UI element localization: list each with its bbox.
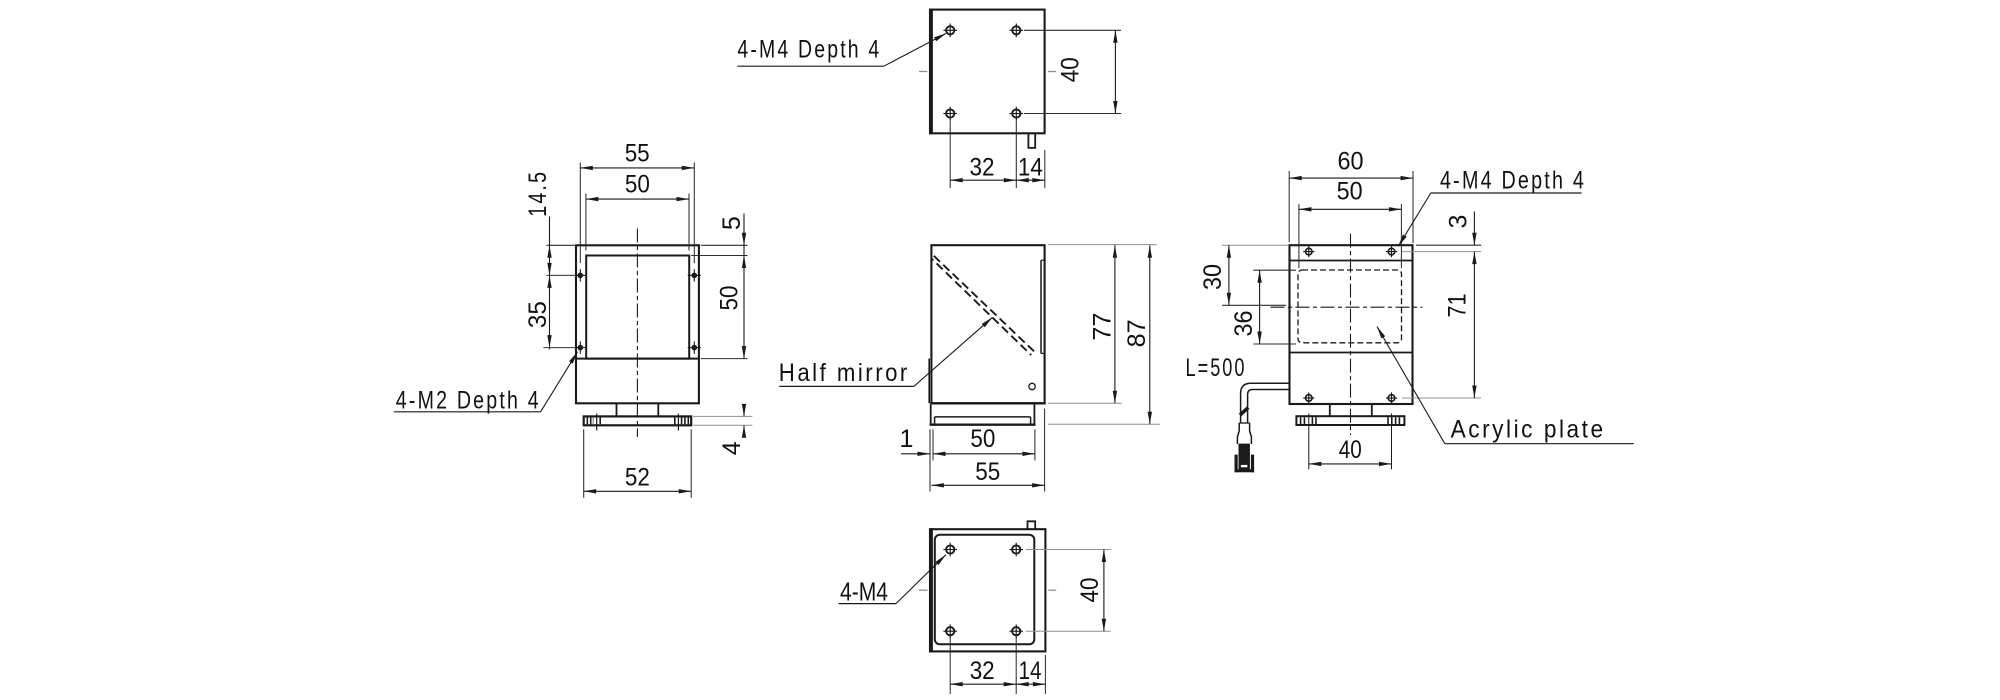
side view: foot bottom line	[930, 424, 1036, 426]
right view: dim 36 extension lines	[1253, 270, 1296, 344]
right view: cable	[1240, 383, 1290, 423]
front view: outer body outline	[576, 245, 699, 403]
side view: acrylic plate edge line	[928, 359, 930, 404]
side view: half mirror dashed line upper	[934, 256, 1035, 352]
right view: top plate line	[1290, 260, 1413, 262]
right view: cable connector	[1235, 423, 1255, 472]
top view: label 4-M4 Depth 4	[737, 33, 946, 66]
bottom view: screw hole top-left	[943, 543, 957, 557]
side view: dim 87 bottom extension line	[1048, 423, 1160, 425]
top view: dim 32/14 extension lines	[950, 120, 1045, 189]
bottom view: dim 32	[950, 657, 1016, 686]
bottom view: dim 40 extension lines	[1026, 550, 1111, 632]
top view: dim 40	[1056, 30, 1117, 113]
front view: M2 hole top-left	[574, 269, 587, 281]
side view: bottom extension lines	[930, 409, 1045, 492]
svg-text:Acrylic plate: Acrylic plate	[1451, 416, 1606, 444]
top view: screw hole bottom-right	[1010, 107, 1024, 121]
front view: right extension lines for 5 and 50	[691, 245, 747, 358]
front view: base separation line	[576, 358, 699, 360]
right view: base separation line	[1290, 352, 1413, 354]
front view: dim 4 extension lines	[693, 416, 752, 425]
right view: bottom screw hole right	[1386, 392, 1397, 403]
svg-text:50: 50	[970, 425, 995, 453]
side view: dim 1	[900, 425, 930, 456]
top view: screw hole bottom-left	[943, 107, 957, 121]
side view: foot sides	[931, 404, 1035, 424]
bottom view: dim 32/14 extension lines	[950, 638, 1045, 695]
front view: dim 55	[580, 140, 694, 171]
front view: foot screw centerline right	[677, 414, 679, 431]
front view: pedestal stem	[617, 403, 659, 416]
side view: dim 50	[933, 425, 1035, 456]
right view: horizontal centerline	[1271, 306, 1423, 308]
side view: dim 77 bottom extension line	[1048, 402, 1122, 404]
side view: dim 77/87 top extension line	[1048, 244, 1157, 246]
svg-text:60: 60	[1338, 147, 1364, 175]
svg-text:4-M4 Depth 4: 4-M4 Depth 4	[1440, 167, 1586, 195]
top view: screw hole top-right	[1010, 24, 1024, 38]
right view: dim 50	[1299, 178, 1402, 212]
side view: foot top line	[935, 416, 1031, 418]
front view: foot flange knurl ticks left	[587, 417, 600, 424]
svg-text:4-M4: 4-M4	[840, 577, 888, 607]
svg-text:40: 40	[1339, 436, 1362, 464]
svg-text:40: 40	[1056, 57, 1084, 82]
bottom view: screw hole bottom-right	[1009, 624, 1023, 638]
svg-text:L=500: L=500	[1186, 354, 1247, 382]
right view: vertical centerline	[1350, 234, 1352, 435]
right view: dim 3	[1444, 212, 1476, 265]
svg-text:50: 50	[1337, 178, 1363, 206]
bottom view: dim 40	[1076, 550, 1106, 632]
svg-text:4-M2 Depth 4: 4-M2 Depth 4	[396, 387, 541, 415]
front view: foot flange knurl ticks right	[675, 417, 689, 424]
side view: dim 55	[931, 458, 1044, 488]
front view: left extension lines for 14.5 and 35	[543, 245, 575, 347]
side view: body outline	[931, 245, 1044, 403]
top view: dim 14	[1016, 154, 1045, 183]
svg-text:32: 32	[970, 657, 995, 685]
top view: centre mark left	[919, 71, 927, 73]
bottom view: inner plate outline	[935, 535, 1035, 645]
side view: label Half mirror	[779, 317, 993, 387]
bottom view: dim 14	[1016, 657, 1045, 686]
right view: dim 60 extension lines	[1289, 171, 1413, 243]
bottom view: outer body outline	[930, 528, 1045, 652]
side view: set screw circle	[1029, 383, 1035, 389]
right view: label Acrylic plate	[1377, 327, 1634, 444]
bottom view: screw hole bottom-left	[943, 624, 957, 638]
front view: dim 55 extension lines	[580, 163, 694, 264]
front view: M2 hole top-right	[688, 269, 701, 281]
right view: body outline	[1290, 245, 1413, 404]
front view: dim 5	[718, 214, 746, 359]
svg-text:50: 50	[625, 171, 650, 199]
right view: dim 30	[1199, 245, 1231, 305]
svg-text:14: 14	[1018, 154, 1043, 182]
front view: foot flange	[584, 416, 692, 425]
side view: dim 87	[1123, 245, 1152, 424]
right view: foot knurl ticks left	[1301, 417, 1316, 424]
svg-text:3: 3	[1444, 215, 1472, 229]
svg-text:30: 30	[1199, 264, 1227, 290]
right view: dim 40 extension lines	[1309, 414, 1392, 470]
front view: dim 50 top	[586, 171, 689, 202]
svg-text:1: 1	[900, 425, 914, 453]
top view: connector tab	[1028, 133, 1035, 148]
front view: inner window frame	[586, 256, 689, 359]
svg-text:36: 36	[1230, 311, 1258, 337]
right view: top screw hole right	[1386, 246, 1397, 257]
svg-text:55: 55	[975, 458, 1000, 486]
side view: bottom edge thick	[930, 402, 1045, 404]
right view: dim 3 extension lines	[1402, 245, 1481, 251]
bottom view: connector tab	[1028, 521, 1036, 529]
top view: dim 40 extension lines	[1024, 30, 1121, 113]
top view: centre mark right	[1048, 71, 1056, 73]
right view: dim 50 extension lines	[1299, 204, 1402, 268]
side view: dim 77	[1088, 245, 1117, 403]
right view: top screw hole left	[1303, 246, 1314, 257]
right view: dim 40	[1309, 436, 1392, 466]
svg-text:14: 14	[1019, 657, 1042, 685]
right view: foot flange	[1296, 416, 1404, 425]
svg-text:Half mirror: Half mirror	[779, 359, 910, 387]
svg-text:4: 4	[718, 441, 746, 455]
front view: dim 50 extension lines	[586, 194, 689, 251]
front view: dim 14.5	[524, 170, 552, 350]
svg-text:87: 87	[1123, 319, 1151, 347]
right view: dim 71 extension line	[1402, 397, 1481, 399]
svg-text:52: 52	[625, 464, 650, 492]
svg-text:35: 35	[524, 301, 552, 328]
svg-text:50: 50	[716, 286, 744, 311]
svg-text:40: 40	[1076, 578, 1104, 603]
right view: dim 60	[1289, 147, 1413, 180]
right view: pedestal stem	[1330, 404, 1372, 416]
right view: bottom screw hole left	[1303, 392, 1314, 403]
front view: foot screw centerline left	[596, 414, 598, 431]
svg-text:32: 32	[970, 154, 995, 182]
bottom view: label 4-M4	[839, 555, 946, 607]
front view: M2 hole bottom-left	[574, 341, 587, 353]
svg-text:14.5: 14.5	[524, 170, 552, 217]
right view: label 4-M4 Depth 4	[1398, 167, 1586, 247]
right view: dim 36	[1230, 270, 1262, 344]
front view: dim 50 right	[716, 286, 747, 359]
front view: label 4-M2 Depth 4	[394, 352, 578, 415]
front view: dim 52	[584, 464, 692, 494]
svg-text:4-M4 Depth 4: 4-M4 Depth 4	[737, 36, 881, 64]
side view: glass slot line	[1041, 260, 1045, 353]
svg-text:5: 5	[718, 216, 746, 230]
front view: dim 52 extension lines	[584, 429, 692, 498]
side view: foot inner ticks	[935, 417, 1031, 425]
svg-text:71: 71	[1444, 294, 1472, 318]
front view: dim 35	[524, 275, 552, 347]
bottom view: centre mark right	[1048, 589, 1056, 591]
bottom view: screw hole top-right	[1009, 543, 1023, 557]
top view: screw hole top-left	[943, 24, 957, 38]
front view: M2 hole bottom-right	[688, 341, 701, 353]
right view: label L=500	[1186, 354, 1247, 382]
right view: dim 71	[1444, 252, 1477, 398]
right view: acrylic plate dashed square	[1298, 270, 1402, 343]
front view: dim 4	[718, 404, 746, 455]
top view: dim 32	[950, 154, 1016, 183]
top view: outer body outline	[930, 9, 1045, 135]
svg-text:55: 55	[625, 140, 650, 168]
front view: centerline	[636, 229, 638, 438]
side view: half mirror dashed line lower	[932, 259, 1031, 355]
right view: dim 30 extension lines	[1222, 245, 1288, 305]
bottom view: centre mark left	[919, 589, 928, 591]
right view: foot knurl ticks right	[1388, 417, 1399, 424]
svg-text:77: 77	[1088, 313, 1116, 341]
